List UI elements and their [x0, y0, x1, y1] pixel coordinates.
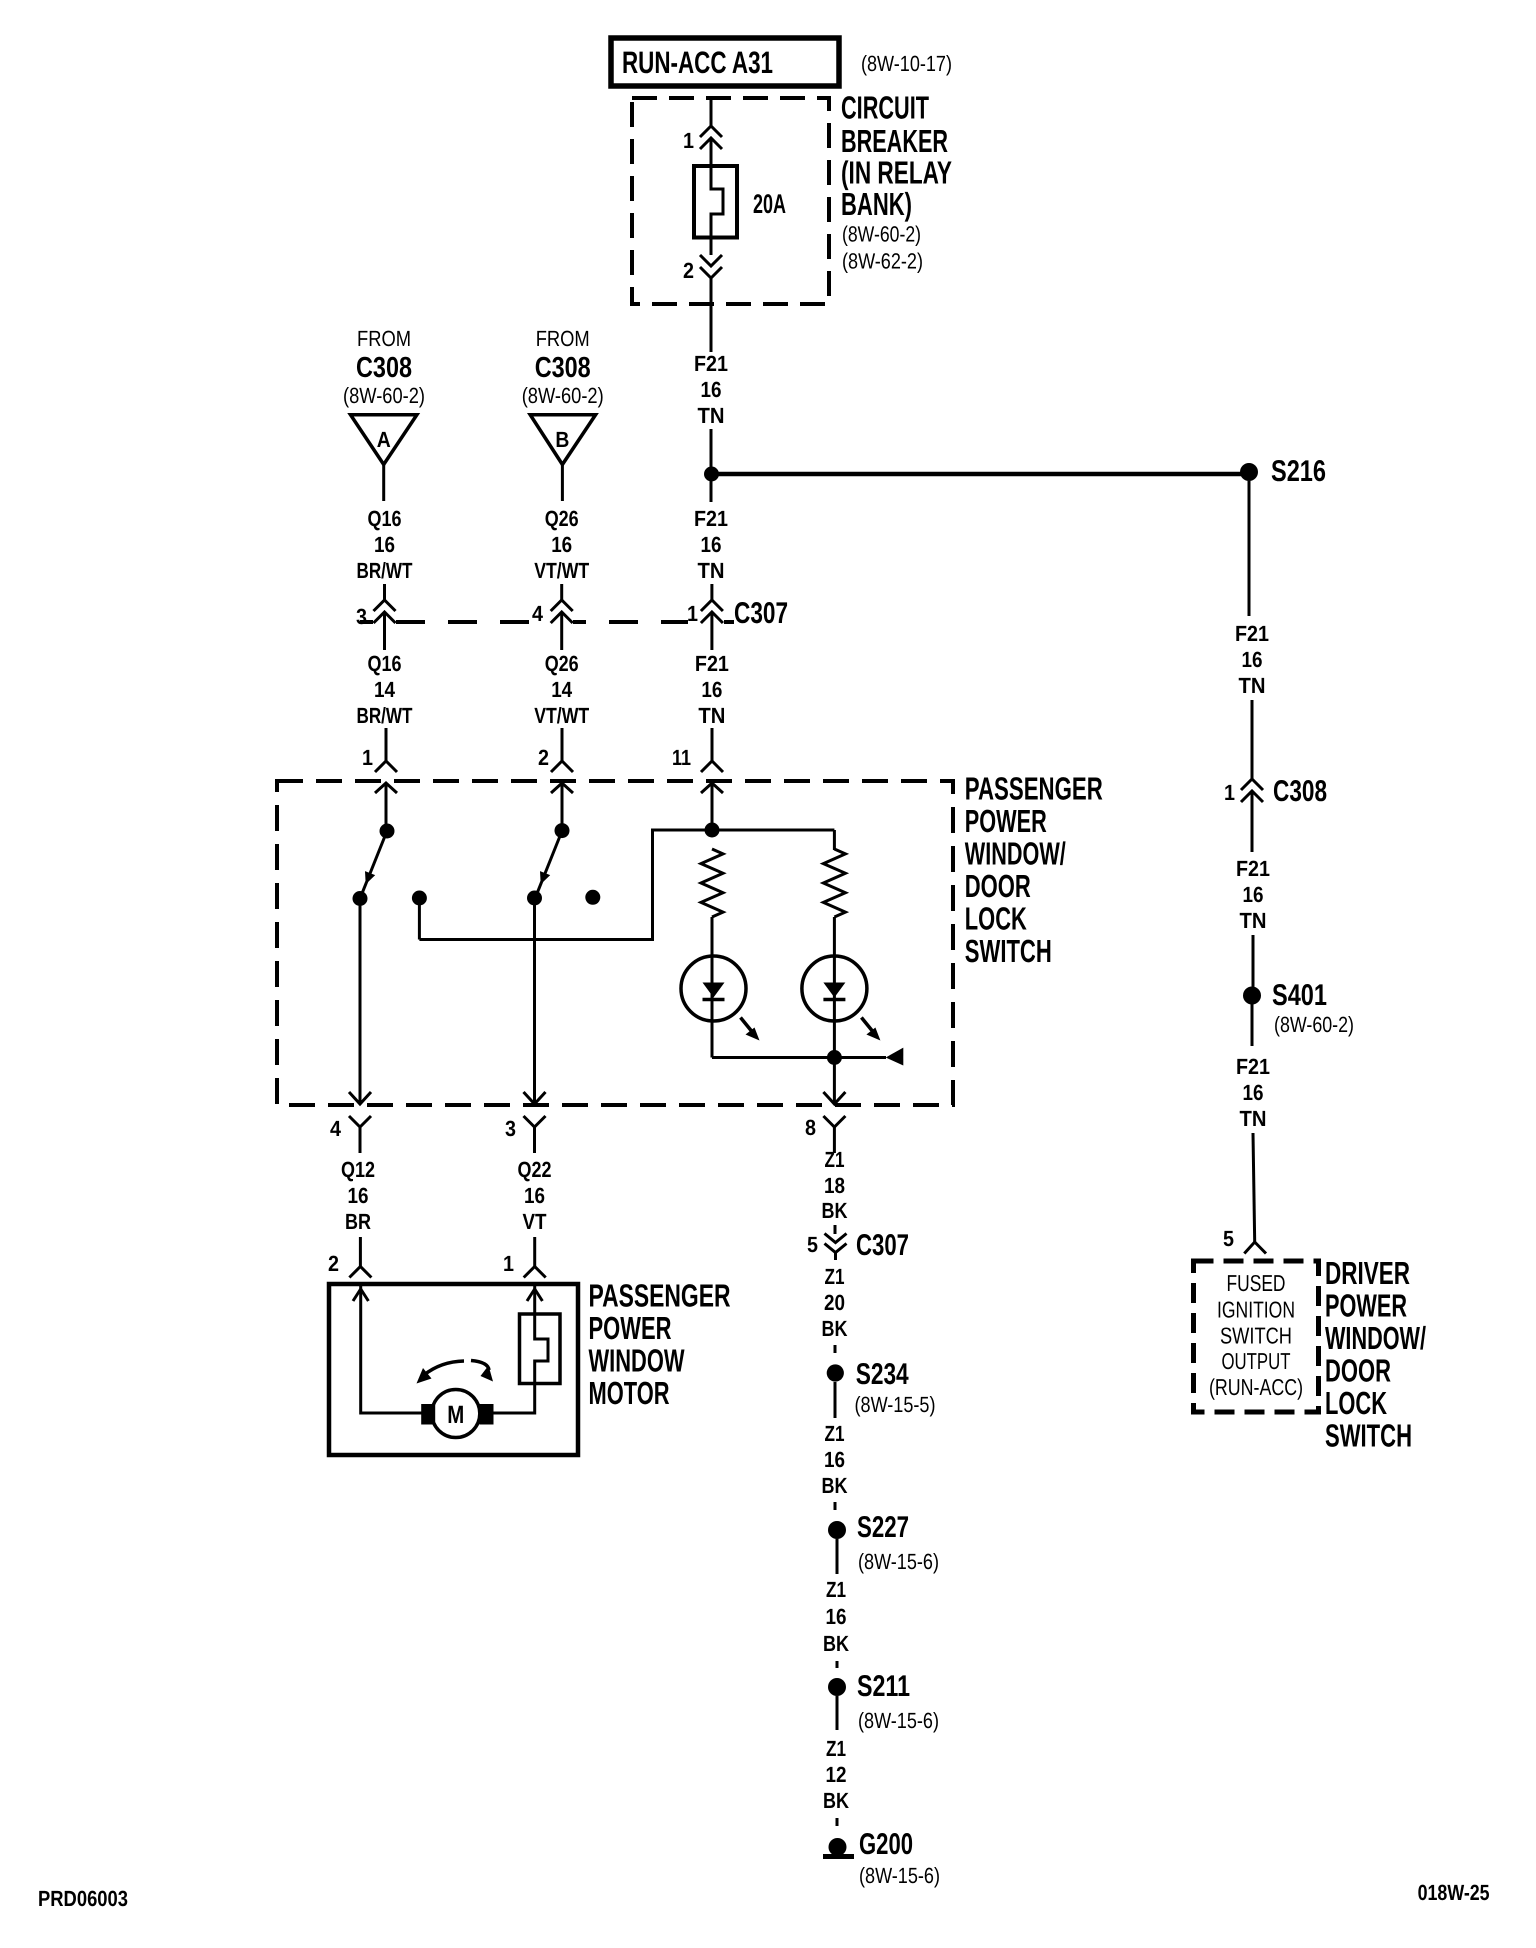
svg-text:(8W-15-6): (8W-15-6)	[858, 1708, 939, 1733]
svg-text:12: 12	[826, 1762, 847, 1787]
svg-text:WINDOW/: WINDOW/	[1325, 1320, 1426, 1356]
svg-text:3: 3	[356, 604, 367, 629]
arrow up (motor right lead)	[527, 1289, 542, 1301]
svg-text:SWITCH: SWITCH	[965, 933, 1052, 969]
LED2 (illumination lamp)	[802, 956, 867, 1021]
svg-text:CIRCUIT: CIRCUIT	[841, 89, 929, 125]
svg-text:LOCK: LOCK	[965, 901, 1027, 937]
splice S211 dot	[828, 1678, 846, 1696]
switch pin 11 connector	[701, 761, 723, 772]
wire BR to motor pin 2	[359, 1237, 362, 1267]
svg-text:TN: TN	[698, 558, 725, 583]
svg-text:F21: F21	[1235, 621, 1269, 646]
svg-text:16: 16	[1243, 1080, 1264, 1105]
svg-text:BK: BK	[822, 1316, 848, 1341]
svg-text:Z1: Z1	[825, 1421, 845, 1446]
switch blade 2	[536, 831, 562, 896]
svg-text:16: 16	[374, 532, 395, 557]
wire triangle B down	[561, 465, 564, 502]
switch blade 1	[361, 831, 387, 896]
svg-text:(8W-60-2): (8W-60-2)	[1274, 1012, 1354, 1037]
svg-text:BK: BK	[823, 1631, 849, 1656]
svg-text:Q12: Q12	[341, 1157, 375, 1182]
wire BR/WT to connector C307 pin 3	[383, 584, 386, 600]
connector C307 pin 5 (double V)	[825, 1234, 847, 1243]
connector C307 pin 1	[701, 600, 723, 611]
connector C307 stub left of pin3	[360, 620, 373, 624]
svg-text:POWER: POWER	[1325, 1288, 1407, 1324]
pin 2 connector (breaker)	[700, 255, 722, 266]
svg-text:F21: F21	[695, 651, 729, 676]
wire throw2 down to pin 3 exit	[533, 903, 536, 1104]
svg-text:11: 11	[672, 745, 691, 770]
svg-text:F21: F21	[1236, 856, 1270, 881]
svg-text:Z1: Z1	[825, 1264, 845, 1289]
connector C307 pin 4	[551, 600, 573, 611]
svg-text:1: 1	[1224, 780, 1235, 805]
connector C307 stub right of pin1	[724, 620, 734, 624]
svg-text:TN: TN	[698, 703, 725, 728]
svg-text:LOCK: LOCK	[1325, 1385, 1387, 1421]
svg-text:VT/WT: VT/WT	[534, 558, 589, 583]
svg-text:BK: BK	[822, 1473, 848, 1498]
motor terminal right	[480, 1404, 494, 1425]
svg-text:16: 16	[1243, 882, 1264, 907]
svg-text:Q26: Q26	[545, 651, 579, 676]
wire LED1 bottom to common	[712, 1056, 834, 1059]
svg-text:1: 1	[683, 128, 694, 153]
svg-text:16: 16	[1242, 647, 1263, 672]
svg-text:VT/WT: VT/WT	[534, 703, 589, 728]
svg-text:F21: F21	[694, 351, 728, 376]
motor terminal left	[421, 1404, 435, 1425]
svg-text:PASSENGER: PASSENGER	[589, 1278, 731, 1314]
wire BR/WT to switch pin 1	[385, 728, 388, 761]
switch pin 3 exit connector	[524, 1092, 546, 1104]
wire VT/WT to connector C307 pin 4	[560, 584, 563, 600]
svg-text:Q26: Q26	[545, 506, 579, 531]
svg-text:S227: S227	[857, 1511, 909, 1544]
switch pin 1 connector	[375, 761, 397, 772]
svg-text:16: 16	[524, 1183, 545, 1208]
svg-text:BANK): BANK)	[841, 186, 912, 222]
svg-text:2: 2	[538, 745, 549, 770]
svg-text:BREAKER: BREAKER	[841, 123, 948, 159]
wire TN to connector C308 pin 1	[1251, 700, 1254, 779]
svg-text:PRD06003: PRD06003	[38, 1886, 128, 1911]
svg-text:16: 16	[701, 377, 722, 402]
wire pin11 node to right branch	[712, 829, 834, 832]
svg-text:(8W-60-2): (8W-60-2)	[522, 383, 604, 408]
resistor R2 (right illumination)	[823, 849, 845, 917]
junction dot LED common	[827, 1050, 842, 1065]
wire motor left lead	[361, 1284, 430, 1413]
svg-text:FROM: FROM	[536, 326, 590, 351]
wire S234 down	[834, 1382, 837, 1418]
svg-text:(8W-10-17): (8W-10-17)	[861, 51, 952, 76]
svg-text:16: 16	[701, 677, 722, 702]
svg-text:Q22: Q22	[518, 1157, 552, 1182]
svg-text:S216: S216	[1271, 455, 1326, 488]
svg-text:16: 16	[348, 1183, 369, 1208]
wire R1 to LED1	[711, 917, 714, 1058]
splice S216 dot	[1240, 463, 1258, 481]
splice S401 dot	[1243, 987, 1261, 1005]
svg-text:OUTPUT: OUTPUT	[1222, 1348, 1291, 1374]
svg-text:Z1: Z1	[825, 1147, 845, 1172]
svg-text:4: 4	[532, 601, 544, 626]
svg-text:DOOR: DOOR	[1325, 1353, 1391, 1389]
svg-text:(RUN-ACC): (RUN-ACC)	[1209, 1374, 1303, 1400]
junction dot pin11 node	[705, 823, 720, 838]
svg-text:DRIVER: DRIVER	[1325, 1255, 1410, 1291]
wire TN to connector C307 pin 1	[710, 584, 713, 600]
svg-text:4: 4	[330, 1116, 342, 1141]
svg-text:Z1: Z1	[826, 1577, 846, 1602]
svg-text:S401: S401	[1272, 979, 1327, 1012]
svg-text:20: 20	[824, 1290, 845, 1315]
svg-text:WINDOW/: WINDOW/	[965, 836, 1066, 872]
wire breaker element to pin 2	[710, 238, 713, 256]
contact dot (NC) B	[585, 890, 600, 905]
wire TN to switch pin 11	[711, 728, 714, 761]
contact dot switch pole 1	[380, 824, 395, 839]
wire switch pin11 down	[711, 783, 714, 826]
svg-text:18: 18	[824, 1173, 845, 1198]
svg-text:1: 1	[687, 601, 698, 626]
wire switch pin1 to contact	[385, 783, 388, 826]
wire TN to driver switch pin 5	[1253, 1133, 1255, 1242]
svg-text:Q16: Q16	[368, 506, 402, 531]
switch blade 1 arrowhead	[365, 871, 375, 884]
circuit breaker dashed box	[632, 98, 829, 304]
svg-text:POWER: POWER	[589, 1310, 672, 1346]
svg-text:TN: TN	[1240, 908, 1267, 933]
svg-text:16: 16	[826, 1604, 847, 1629]
wire motor right lead bottom	[484, 1384, 535, 1414]
switch blade 2 arrowhead	[540, 871, 550, 884]
wire S211 down	[836, 1696, 839, 1730]
wire throw1 down to pin 4 exit	[359, 903, 362, 1104]
svg-text:BR/WT: BR/WT	[357, 703, 413, 728]
svg-text:16: 16	[824, 1447, 845, 1472]
passenger power window motor box	[329, 1284, 578, 1455]
wire BK to ground G200	[836, 1818, 839, 1826]
svg-text:IGNITION: IGNITION	[1217, 1297, 1295, 1323]
svg-text:(8W-15-5): (8W-15-5)	[855, 1392, 936, 1417]
wire to continuation arrow	[841, 1056, 886, 1059]
wire VT to motor pin 1	[533, 1237, 536, 1267]
wire C307 pin1 down	[710, 612, 713, 650]
wire triangle A down	[382, 465, 385, 502]
svg-text:PASSENGER: PASSENGER	[965, 771, 1103, 807]
svg-text:SWITCH: SWITCH	[1220, 1323, 1292, 1349]
svg-text:Z1: Z1	[826, 1736, 846, 1761]
svg-text:C308: C308	[1273, 775, 1327, 808]
off-page triangle A	[351, 415, 417, 465]
wire TN to splice S401	[1252, 935, 1255, 987]
svg-text:(8W-62-2): (8W-62-2)	[842, 249, 923, 274]
svg-text:2: 2	[683, 258, 694, 283]
svg-text:POWER: POWER	[965, 803, 1047, 839]
off-page triangle B	[530, 415, 595, 465]
svg-text:S211: S211	[857, 1670, 910, 1703]
svg-text:M: M	[447, 1401, 464, 1429]
wire A31 to breaker pin 1	[710, 98, 713, 126]
svg-text:BR: BR	[345, 1209, 371, 1234]
motor thermal breaker box	[520, 1314, 561, 1384]
passenger switch dashed box	[277, 781, 953, 1105]
contact dot switch pole 2	[555, 823, 570, 838]
svg-text:F21: F21	[1236, 1054, 1270, 1079]
wire TN to splice S216	[710, 429, 713, 468]
wire BK to splice S234	[834, 1345, 837, 1353]
svg-text:018W-25: 018W-25	[1418, 1880, 1490, 1905]
contact dot (NC) A	[412, 891, 427, 906]
wire C307 pin5 stem	[834, 1253, 837, 1261]
switch pin 4 exit connector	[349, 1092, 371, 1104]
svg-text:TN: TN	[1239, 673, 1266, 698]
svg-text:1: 1	[362, 745, 373, 770]
driver switch pin 5 connector (lambda)	[1244, 1242, 1266, 1254]
svg-text:(8W-60-2): (8W-60-2)	[343, 383, 425, 408]
wire R2 to LED2	[833, 917, 836, 1104]
switch pin 8 exit connector	[823, 1092, 845, 1104]
connector C307 pin 3	[374, 600, 396, 611]
wire below S216 tap	[710, 479, 713, 502]
svg-text:(8W-15-6): (8W-15-6)	[858, 1549, 939, 1574]
svg-text:20A: 20A	[753, 189, 786, 219]
svg-text:RUN-ACC A31: RUN-ACC A31	[622, 45, 773, 80]
wire BK to splice S227	[834, 1502, 837, 1510]
ground G200 bar	[823, 1854, 854, 1859]
circuit breaker element box	[694, 166, 737, 238]
svg-text:BK: BK	[822, 1198, 848, 1223]
svg-text:B: B	[555, 427, 569, 452]
motor rotation arrowhead left	[417, 1368, 432, 1384]
svg-text:BK: BK	[823, 1788, 849, 1813]
svg-text:(8W-15-6): (8W-15-6)	[859, 1863, 940, 1888]
wire C307 pin3 down	[383, 612, 386, 650]
continuation arrow (solid triangle)	[886, 1048, 904, 1066]
svg-text:14: 14	[374, 677, 396, 702]
splice S234 dot	[827, 1364, 844, 1381]
svg-text:8: 8	[805, 1115, 816, 1140]
switch pin 2 connector	[551, 761, 573, 772]
motor M circle	[432, 1390, 480, 1438]
circuit breaker bimetal element	[711, 166, 723, 238]
ground G200 dot	[829, 1838, 847, 1856]
svg-text:5: 5	[807, 1232, 818, 1257]
contact dot switch throw 1	[353, 891, 368, 906]
pin 1 connector (breaker)	[700, 126, 722, 137]
wire to splice S216 (horizontal)	[716, 472, 1242, 477]
svg-text:16: 16	[551, 532, 572, 557]
wire S401 down	[1251, 1004, 1254, 1046]
motor rotation arc left	[424, 1361, 464, 1375]
junction dot at S216 tap	[704, 467, 719, 482]
motor rotation arc right	[471, 1361, 489, 1371]
svg-text:C307: C307	[734, 597, 788, 630]
svg-text:FUSED: FUSED	[1227, 1270, 1286, 1296]
wire BK to splice S211	[836, 1661, 839, 1668]
svg-text:A: A	[377, 427, 391, 452]
wire switch pin2 to contact	[561, 783, 564, 826]
wire stub from NC contact A	[418, 898, 421, 940]
svg-text:FROM: FROM	[357, 326, 411, 351]
connector C307 dashed tie 4-1	[609, 620, 688, 624]
connector C308 pin 1	[1241, 779, 1263, 790]
svg-text:G200: G200	[859, 1828, 913, 1861]
svg-text:WINDOW: WINDOW	[589, 1343, 686, 1379]
motor pin 1 connector	[524, 1267, 546, 1278]
resistor R1 (left illumination)	[701, 849, 723, 917]
svg-text:C307: C307	[856, 1229, 909, 1262]
svg-text:16: 16	[701, 532, 722, 557]
svg-text:Q16: Q16	[368, 651, 402, 676]
svg-text:SWITCH: SWITCH	[1325, 1418, 1412, 1454]
motor thermal breaker element	[535, 1314, 548, 1384]
wire S216 down	[1248, 481, 1251, 616]
svg-text:VT: VT	[523, 1209, 547, 1234]
splice S227 dot	[828, 1521, 846, 1539]
wire motor right lead top	[533, 1284, 536, 1314]
svg-text:14: 14	[551, 677, 573, 702]
svg-text:F21: F21	[694, 506, 728, 531]
connector C307 dashed tie 3-4	[396, 620, 549, 624]
arrow up (motor left lead)	[353, 1289, 368, 1301]
svg-text:TN: TN	[698, 403, 725, 428]
driver switch dashed box	[1194, 1261, 1319, 1412]
LED1 (illumination lamp)	[681, 956, 746, 1021]
svg-text:C308: C308	[535, 352, 591, 384]
wire C307 pin4 down	[560, 612, 563, 650]
wire pin1 to breaker element	[710, 138, 713, 166]
svg-text:(IN RELAY: (IN RELAY	[841, 155, 952, 191]
wire common link L-shape	[419, 830, 706, 940]
svg-text:DOOR: DOOR	[965, 868, 1031, 904]
svg-text:C308: C308	[356, 352, 412, 384]
connector C307 stub right of pin4 area	[573, 620, 586, 624]
svg-text:(8W-60-2): (8W-60-2)	[842, 222, 921, 247]
wire pin 2 out of breaker box	[710, 278, 713, 353]
svg-text:MOTOR: MOTOR	[589, 1375, 670, 1411]
wire VT/WT to switch pin 2	[561, 728, 564, 761]
wire right branch down to resistor	[833, 830, 836, 850]
motor rotation arrowhead right	[481, 1366, 494, 1382]
svg-text:S234: S234	[856, 1358, 909, 1391]
contact dot switch throw 2	[527, 891, 542, 906]
wire C308 down	[1251, 791, 1254, 852]
svg-text:5: 5	[1223, 1226, 1234, 1251]
motor pin 2 connector	[349, 1267, 371, 1278]
wire S227 down	[836, 1539, 839, 1574]
svg-text:3: 3	[505, 1116, 516, 1141]
wire BK to C307 pin 5	[834, 1225, 837, 1234]
fuse block RUN-ACC A31 box	[611, 38, 839, 86]
svg-text:2: 2	[328, 1251, 339, 1276]
svg-text:1: 1	[503, 1251, 514, 1276]
svg-text:BR/WT: BR/WT	[357, 558, 413, 583]
svg-text:TN: TN	[1240, 1106, 1267, 1131]
